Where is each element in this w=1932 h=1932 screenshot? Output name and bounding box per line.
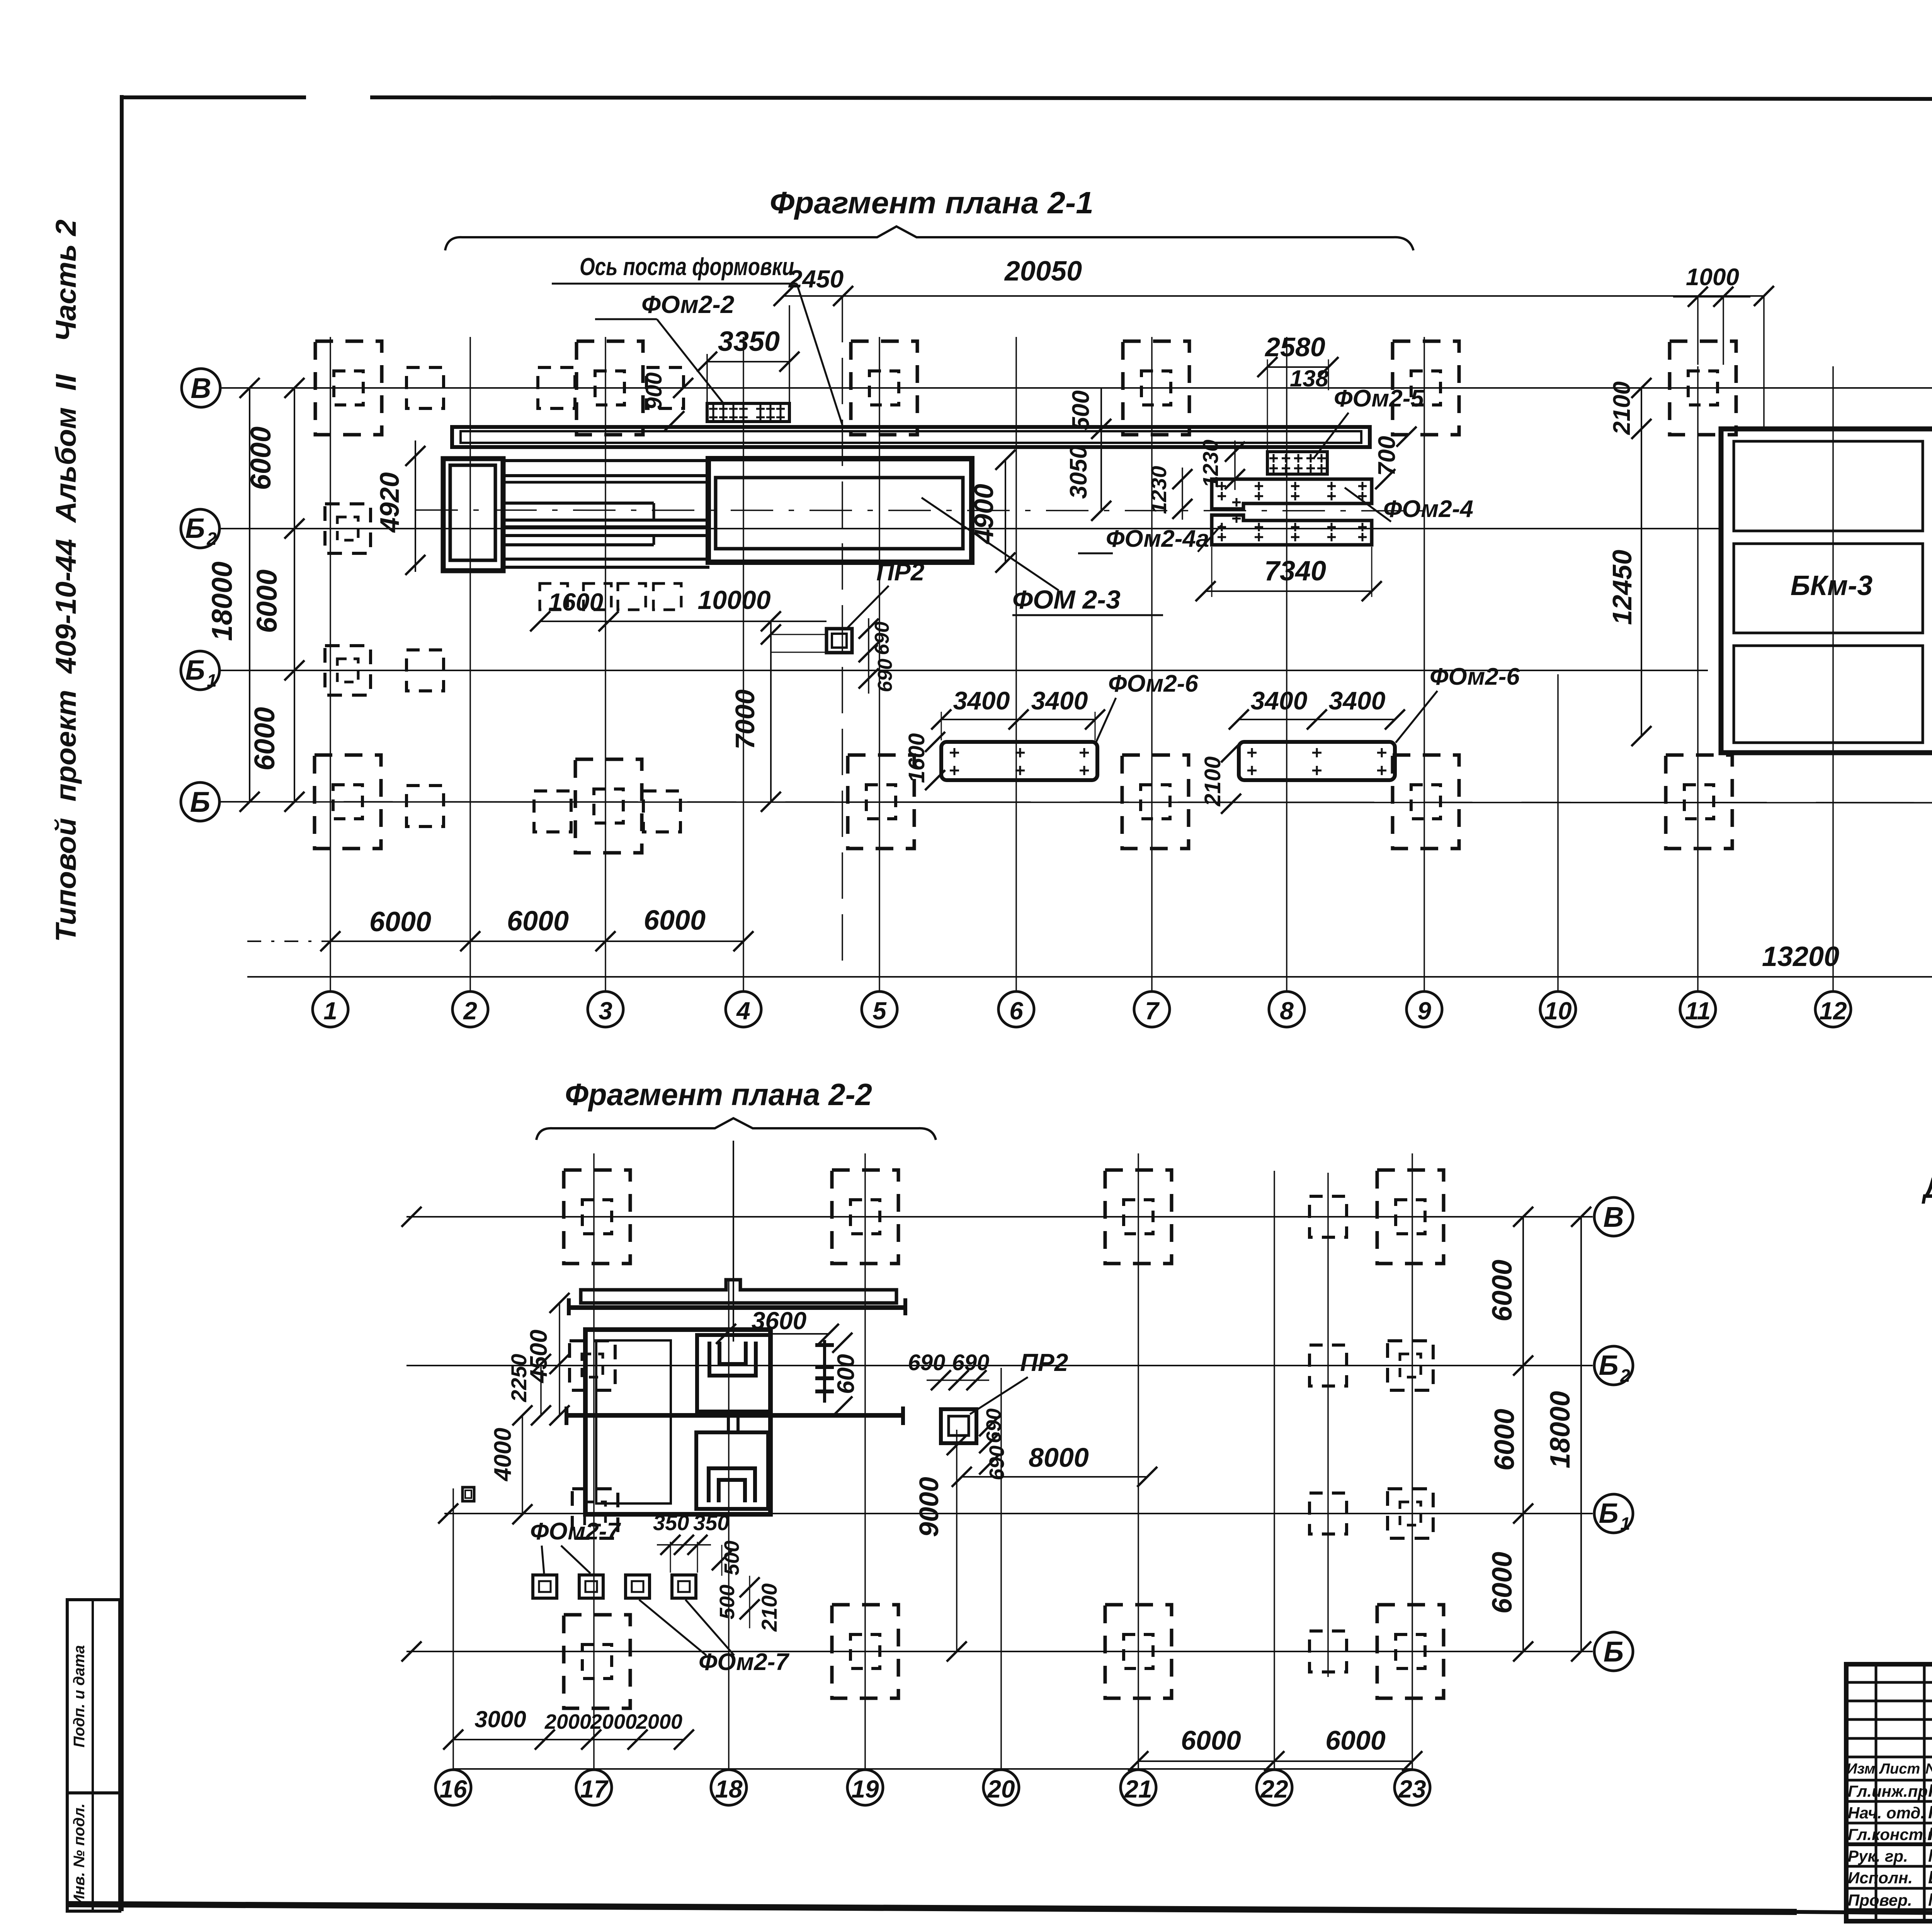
svg-text:2100: 2100	[757, 1583, 781, 1632]
upper C-unit	[697, 1335, 770, 1412]
dims 3400 3400 (block1)	[941, 719, 1095, 720]
svg-text:6000: 6000	[1489, 1409, 1520, 1471]
rail lower bar	[569, 1305, 905, 1310]
bottom dimension chain 6000x3	[330, 940, 743, 942]
svg-text:Исполн.: Исполн.	[1848, 1869, 1913, 1887]
svg-text:2: 2	[1620, 1366, 1630, 1386]
svg-text:Провер.: Провер.	[1848, 1891, 1912, 1909]
rail with centre lug (plan 2-2)	[581, 1280, 896, 1303]
dims 1600 / 10000	[540, 621, 827, 622]
svg-text:6000: 6000	[1487, 1260, 1518, 1321]
svg-text:690: 690	[874, 659, 896, 692]
dim 8000	[962, 1476, 1147, 1478]
svg-text:ФОМ 2-3: ФОМ 2-3	[1012, 585, 1121, 614]
svg-text:690: 690	[985, 1446, 1009, 1480]
revision table verticals	[1875, 1664, 1878, 1921]
svg-text:ФОм2-5: ФОм2-5	[1334, 385, 1424, 412]
svg-text:3350: 3350	[718, 326, 780, 357]
svg-text:3050: 3050	[1065, 446, 1092, 499]
machine centre line	[415, 510, 1426, 511]
svg-text:ФОм2-4: ФОм2-4	[1383, 496, 1473, 522]
svg-text:2250: 2250	[507, 1354, 531, 1403]
svg-text:ФОм2-2: ФОм2-2	[641, 291, 734, 318]
svg-text:4900: 4900	[969, 484, 999, 545]
svg-text:2: 2	[206, 529, 217, 549]
svg-text:6000: 6000	[251, 570, 283, 633]
svg-text:21: 21	[1124, 1775, 1152, 1803]
svg-text:2: 2	[463, 997, 477, 1025]
svg-text:7340: 7340	[1264, 556, 1326, 587]
svg-text:2580: 2580	[1264, 332, 1325, 362]
svg-text:6000: 6000	[1325, 1725, 1386, 1755]
sheet frame	[120, 95, 124, 1911]
forming post rail (long)	[452, 427, 1370, 447]
right dim chains 18000/6000 (bottom plan)	[1522, 1217, 1524, 1651]
svg-text:22: 22	[1260, 1775, 1288, 1803]
svg-text:ПР2: ПР2	[876, 558, 924, 586]
bubbles 16-23	[452, 1769, 454, 1770]
svg-text:138: 138	[1290, 366, 1329, 391]
svg-text:Рук. гр.: Рук. гр.	[1848, 1847, 1908, 1865]
svg-text:1600: 1600	[904, 733, 929, 783]
svg-text:В: В	[1603, 1201, 1624, 1233]
svg-text:7000: 7000	[730, 689, 760, 750]
svg-text:20050: 20050	[1004, 256, 1082, 287]
svg-text:Кальчук: Кальчук	[1928, 1824, 1932, 1844]
svg-text:9000: 9000	[914, 1477, 944, 1537]
foundations ФОм2-7 row	[533, 1575, 557, 1598]
svg-text:Гл.инж.пр: Гл.инж.пр	[1848, 1782, 1928, 1800]
svg-text:2100: 2100	[1609, 381, 1635, 435]
svg-text:2100: 2100	[1200, 756, 1225, 806]
svg-text:1: 1	[207, 670, 217, 690]
svg-text:5: 5	[872, 997, 887, 1025]
dim 3350	[707, 361, 789, 362]
svg-text:Ось поста формовки: Ось поста формовки	[580, 253, 794, 281]
equipment block БКм-3	[1721, 429, 1932, 753]
dim 3600	[726, 1333, 829, 1335]
svg-text:17: 17	[580, 1775, 609, 1803]
svg-text:10000: 10000	[697, 585, 770, 615]
axis bubbles right (bottom plan)	[1594, 1197, 1633, 1236]
svg-text:11: 11	[1685, 997, 1711, 1025]
svg-text:Нач. отд.: Нач. отд.	[1848, 1804, 1925, 1822]
svg-text:3400: 3400	[1251, 686, 1308, 715]
left stamp column	[67, 1600, 120, 1911]
svg-text:12450: 12450	[1607, 550, 1637, 625]
svg-text:Маслобойщикова: Маслобойщикова	[1928, 1845, 1932, 1866]
svg-text:16: 16	[439, 1775, 467, 1803]
top plan axis row Б2	[219, 528, 1721, 529]
svg-text:350: 350	[693, 1510, 729, 1535]
machine ФОм2-3 left head block	[443, 459, 503, 571]
svg-text:6000: 6000	[507, 906, 569, 937]
svg-text:19: 19	[851, 1775, 879, 1803]
bottom plan axis В	[406, 1216, 1593, 1218]
dims 690/690 at ПР2	[868, 618, 869, 694]
foundation ФОм2-6 #2	[1239, 742, 1395, 780]
svg-text:3400: 3400	[1329, 686, 1386, 715]
svg-text:8000: 8000	[1029, 1442, 1089, 1473]
svg-text:6000: 6000	[1181, 1725, 1241, 1755]
connector	[728, 1412, 738, 1432]
svg-text:2000: 2000	[590, 1710, 637, 1733]
top plan column grid lines	[330, 337, 331, 977]
svg-text:Гл.конст.пр: Гл.конст.пр	[1848, 1825, 1932, 1844]
svg-text:6000: 6000	[644, 905, 706, 936]
left dims 2100 / 12450	[1641, 388, 1642, 736]
svg-text:Инв. № подл.: Инв. № подл.	[71, 1803, 88, 1906]
bottom plan axis Б	[406, 1651, 1593, 1652]
dim 2580 / 138	[1267, 366, 1328, 368]
column footings row Б1	[325, 646, 371, 695]
revision table rows	[1846, 1681, 1932, 1684]
svg-text:600: 600	[833, 1354, 859, 1394]
svg-text:8: 8	[1280, 997, 1294, 1025]
svg-text:23: 23	[1398, 1775, 1426, 1803]
title block outline	[1846, 1664, 1932, 1921]
dim 4920	[415, 440, 416, 572]
svg-text:Рыжак: Рыжак	[1928, 1781, 1932, 1801]
column bubbles 1-16	[330, 977, 331, 992]
svg-text:ФОм2-7: ФОм2-7	[530, 1518, 621, 1545]
column footings row Б2	[325, 504, 371, 553]
svg-text:Б: Б	[1604, 1636, 1624, 1668]
dim 1000 (col 11 top)	[1697, 296, 1699, 365]
foundation ФОм2-6 #1	[941, 742, 1097, 780]
svg-text:9: 9	[1417, 997, 1431, 1025]
svg-text:ФОм2-6: ФОм2-6	[1108, 670, 1198, 697]
svg-text:Типовой проект 409-10-44 Ал: Типовой проект 409-10-44 Альбом II Часть…	[50, 219, 82, 942]
svg-text:12: 12	[1819, 997, 1847, 1025]
svg-text:1230: 1230	[1198, 440, 1223, 488]
bottom plan axis Б1	[444, 1513, 1593, 1514]
svg-text:6000: 6000	[369, 906, 431, 937]
bottom plan column grid lines	[452, 1488, 454, 1769]
dumbbell gauge	[823, 1340, 826, 1403]
bottom plan footings row Б2	[570, 1341, 615, 1390]
foundation ФОм2-2	[707, 403, 789, 422]
column footings row В	[315, 341, 382, 435]
svg-text:3: 3	[599, 997, 612, 1025]
dims 500 / 3050	[1100, 388, 1102, 511]
svg-text:Б: Б	[185, 655, 205, 686]
svg-text:3400: 3400	[1031, 686, 1088, 715]
bottom plan footings row В	[564, 1170, 630, 1264]
svg-text:6000: 6000	[245, 427, 277, 490]
svg-text:1: 1	[1620, 1514, 1630, 1534]
svg-text:Б: Б	[1599, 1498, 1619, 1529]
svg-text:10: 10	[1544, 997, 1571, 1025]
svg-text:500: 500	[1068, 390, 1094, 430]
foundation ПР2 (plan 2-2)	[941, 1409, 976, 1443]
svg-text:3000: 3000	[474, 1706, 526, 1732]
left dimension chain 18000/6000	[249, 388, 250, 802]
svg-text:Подп. и дата: Подп. и дата	[71, 1645, 88, 1748]
svg-text:1: 1	[323, 997, 337, 1025]
svg-text:500: 500	[716, 1585, 739, 1619]
bottom plan baseline	[453, 1768, 1412, 1770]
foundation ФОм2-4 (stepped)	[1212, 479, 1372, 509]
svg-text:350: 350	[653, 1510, 689, 1535]
svg-text:Ерохина: Ерохина	[1928, 1867, 1932, 1887]
svg-text:18000: 18000	[1545, 1391, 1576, 1468]
dim 4900	[1005, 460, 1006, 563]
svg-text:Глазунов: Глазунов	[1928, 1802, 1932, 1822]
svg-text:4920: 4920	[374, 472, 405, 533]
machine ФОм2-3 main box	[708, 459, 972, 562]
svg-text:20: 20	[987, 1775, 1015, 1803]
svg-text:В: В	[190, 372, 211, 404]
svg-text:Фрагмент плана 2-1: Фрагмент плана 2-1	[770, 185, 1094, 220]
svg-text:ПР2: ПР2	[1020, 1349, 1068, 1376]
svg-text:ФОм2-4а: ФОм2-4а	[1106, 526, 1209, 552]
svg-text:Фрагмент плана 2-2: Фрагмент плана 2-2	[565, 1077, 872, 1112]
svg-text:690: 690	[908, 1350, 946, 1375]
machine telescoping bands	[503, 459, 709, 462]
svg-text:2000: 2000	[544, 1710, 591, 1733]
bottom plan footings row Б	[832, 1605, 898, 1698]
svg-text:2450: 2450	[788, 265, 844, 293]
dim 9000	[956, 1430, 957, 1651]
svg-text:Б: Б	[185, 513, 205, 544]
svg-text:Б: Б	[190, 786, 210, 818]
svg-text:7: 7	[1145, 997, 1160, 1025]
lower C-unit	[696, 1432, 768, 1509]
svg-text:1600: 1600	[548, 588, 603, 616]
mould box outline	[585, 1330, 770, 1514]
dim 2450 / 20050	[784, 295, 1764, 297]
svg-text:1000: 1000	[1686, 264, 1739, 291]
svg-text:4: 4	[736, 997, 750, 1025]
svg-text:4000: 4000	[490, 1428, 516, 1482]
foundation ФОм2-5	[1267, 452, 1327, 474]
svg-text:18: 18	[715, 1775, 743, 1803]
svg-text:Изм: Изм	[1847, 1761, 1875, 1777]
svg-text:6: 6	[1009, 997, 1023, 1025]
dim 7340	[1206, 590, 1372, 592]
svg-text:3400: 3400	[953, 686, 1010, 715]
mid thick bar	[566, 1413, 903, 1418]
foundation ФОм2-4а (stepped)	[1212, 515, 1372, 545]
bottom plan axis Б2	[406, 1365, 1593, 1366]
svg-text:1230: 1230	[1146, 466, 1171, 514]
small foundation (col 16)	[463, 1487, 474, 1501]
dim 7000	[770, 621, 772, 802]
svg-text:900: 900	[641, 372, 667, 410]
svg-text:№документа: №документа	[1925, 1761, 1932, 1777]
svg-text:ФОм2-6: ФОм2-6	[1430, 663, 1520, 690]
ось поста формовки vertical axis	[842, 296, 843, 977]
svg-text:Б: Б	[1599, 1350, 1619, 1381]
svg-text:6000: 6000	[248, 707, 281, 771]
top plan axis row В	[219, 387, 1932, 389]
svg-text:13200: 13200	[1762, 941, 1839, 972]
dims 3400 3400 (block2)	[1239, 719, 1395, 720]
svg-text:6000: 6000	[1487, 1552, 1518, 1614]
svg-text:БКм-3: БКм-3	[1791, 570, 1873, 601]
top plan axis row Б	[219, 802, 1932, 803]
top plan baseline	[247, 976, 1932, 978]
svg-text:2000: 2000	[636, 1710, 682, 1733]
foundation ПР2 (plan 2-1)	[827, 629, 852, 653]
fachwerk column line 22a	[1327, 1173, 1329, 1677]
svg-text:700: 700	[1374, 436, 1400, 476]
svg-text:18000: 18000	[206, 561, 238, 641]
machine centre axis (plan 2-2)	[733, 1141, 734, 1342]
svg-text:Лист: Лист	[1879, 1761, 1920, 1777]
axis bubbles left	[182, 369, 220, 407]
dims 4500 2250 4000	[559, 1303, 560, 1415]
bottom plan footings row Б1	[572, 1489, 618, 1538]
top plan axis row Б1	[219, 670, 1708, 671]
column footings row Б	[315, 755, 381, 849]
svg-text:Маслобойщикова: Маслобойщикова	[1928, 1889, 1932, 1910]
svg-text:3600: 3600	[752, 1307, 806, 1335]
svg-text:690: 690	[871, 622, 893, 655]
small fachwerk footings row	[540, 583, 568, 610]
svg-text:ФОм2-7: ФОм2-7	[699, 1649, 789, 1675]
